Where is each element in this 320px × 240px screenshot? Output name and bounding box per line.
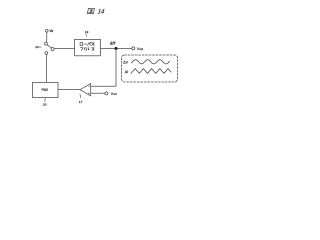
- label 出力: [110, 41, 116, 44]
- switch SW21: [45, 42, 48, 45]
- label フィルタ: [80, 48, 94, 51]
- node Vref terminal: [105, 92, 108, 95]
- svg-text:PWM: PWM: [42, 87, 48, 92]
- title 図14: [87, 8, 94, 13]
- minus input mark: [88, 85, 90, 87]
- svg-text:21: 21: [35, 45, 39, 49]
- label 19: [85, 34, 87, 37]
- label ΔV: [123, 61, 128, 65]
- dashed waveform box: [122, 55, 178, 82]
- PWM box 20: [33, 82, 58, 97]
- svg-text:19: 19: [85, 30, 89, 34]
- label Vref: [111, 92, 117, 96]
- waveform ripple voltage sine: [131, 60, 169, 64]
- wire LPF to Vout: [101, 47, 132, 49]
- low-pass filter box 19: [75, 39, 101, 55]
- label Vout: [137, 47, 144, 51]
- svg-text:Δi: Δi: [125, 70, 128, 74]
- wire feedback from output node to comparator: [91, 50, 116, 86]
- svg-text:20: 20: [43, 102, 47, 106]
- node output junction: [114, 47, 117, 50]
- waveform ripple current triangle: [131, 69, 171, 74]
- label ローパス: [80, 42, 94, 45]
- svg-text:17: 17: [79, 100, 83, 104]
- svg-text:ref: ref: [113, 92, 116, 96]
- plus input mark: [88, 93, 90, 95]
- svg-text:out: out: [139, 47, 143, 51]
- svg-text:ΔV: ΔV: [123, 61, 128, 65]
- op-amp comparator 17: [80, 84, 91, 96]
- node Va terminal: [46, 30, 49, 33]
- wire Va to switch: [46, 32, 48, 42]
- wire PWM to switch: [46, 55, 48, 83]
- node Vout terminal: [132, 47, 135, 50]
- label 21: [39, 46, 42, 48]
- wire switch to LPF: [54, 48, 74, 50]
- label Δi: [125, 70, 128, 74]
- label 20: [44, 98, 46, 102]
- label 17: [79, 94, 82, 98]
- svg-text:Va: Va: [49, 29, 53, 33]
- wire Vref to comparator: [91, 92, 105, 94]
- wire comparator output to PWM: [58, 89, 80, 91]
- label Va: [49, 29, 53, 33]
